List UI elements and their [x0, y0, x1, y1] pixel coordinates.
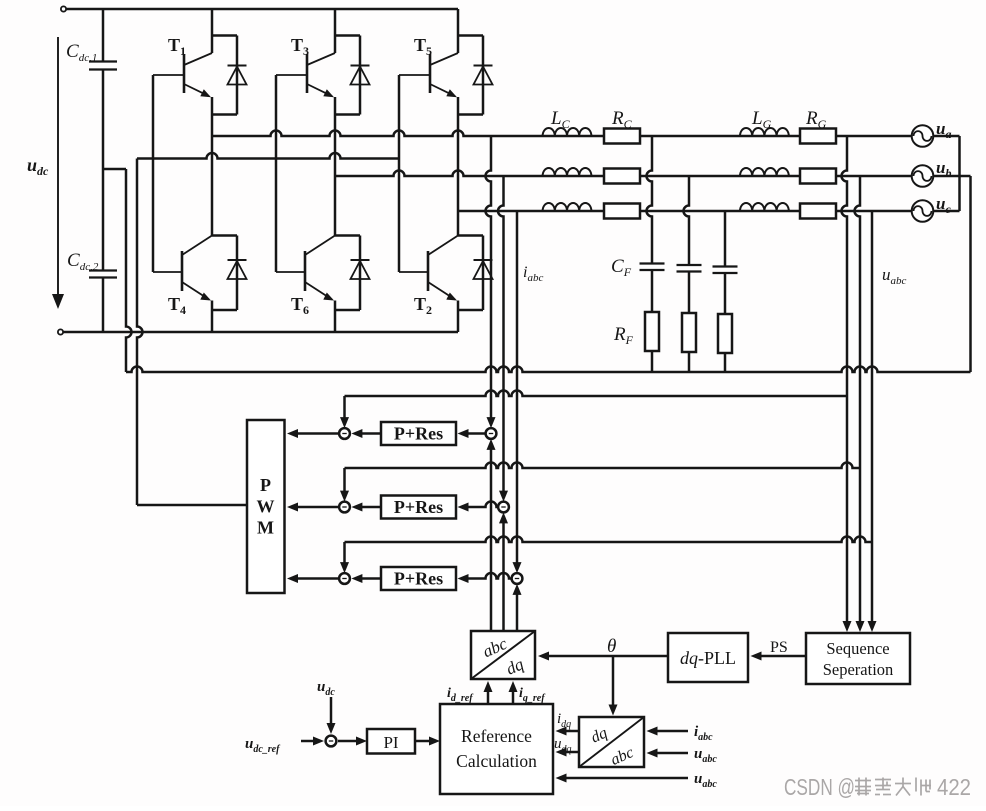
resistor R_F phase b	[682, 313, 696, 352]
arrow i_a into node	[487, 417, 496, 428]
wire neutral bus	[126, 367, 971, 372]
wire phase b	[335, 171, 913, 177]
block PWM	[247, 420, 285, 593]
label PI	[383, 733, 398, 752]
inductor L_C phase a	[543, 128, 592, 136]
watermark CSDN	[784, 774, 971, 800]
wire source a to star	[933, 136, 960, 211]
wire C_F branch b	[684, 176, 690, 265]
arrow P+Res out a	[351, 429, 381, 438]
label i_abc input	[694, 724, 713, 743]
wire PI to RefCalc	[415, 737, 440, 746]
label R_F	[613, 324, 634, 347]
wire node to PI	[338, 737, 367, 746]
label i_d_ref	[447, 686, 474, 704]
svg-text:T6: T6	[291, 294, 309, 317]
arrow u_a into sequence block	[843, 621, 852, 632]
arrow P+Res out c	[351, 574, 381, 583]
arrow ref c into node	[513, 584, 522, 595]
svg-text:T3: T3	[291, 35, 309, 58]
label T5	[414, 35, 432, 58]
wire node to PWM row c	[287, 574, 339, 583]
svg-text:CF: CF	[611, 256, 632, 279]
svg-text:Cdc,2: Cdc,2	[67, 250, 99, 273]
source u_b	[912, 165, 934, 187]
label PWM	[257, 475, 275, 538]
source u_a	[912, 125, 934, 147]
wire bottom DC rail	[63, 331, 458, 334]
block Reference Calculation	[440, 704, 553, 794]
svg-text:udc_ref: udc_ref	[245, 736, 281, 755]
svg-text:CSDN @: CSDN @	[784, 774, 855, 800]
arrow i_b into node	[499, 491, 508, 502]
label u_dq	[554, 736, 572, 755]
wire leg mid a	[211, 115, 214, 236]
wire DC cap rail middle	[102, 70, 105, 271]
wire phase a	[212, 131, 913, 137]
wire R_F to neutral b	[688, 352, 691, 372]
label L_C	[550, 108, 571, 131]
wire phase c	[458, 210, 913, 213]
wire u_a sense	[842, 136, 848, 396]
resistor R_C phase b	[604, 169, 640, 184]
block abc/dq	[471, 631, 535, 679]
svg-text:T5: T5	[414, 35, 432, 58]
wire source b to neutral	[933, 176, 971, 372]
label R_C	[611, 108, 633, 131]
svg-text:id_ref: id_ref	[447, 686, 474, 704]
diode D1 (antiparallel, top)	[212, 36, 247, 115]
inductor L_C phase c	[543, 203, 592, 211]
wire gate leg c	[398, 75, 401, 272]
diode D2 (antiparallel, bottom)	[458, 236, 493, 311]
wire i_abc into dq/abc	[647, 727, 689, 736]
inductor L_G phase a	[740, 128, 789, 136]
label u_abc	[882, 265, 907, 287]
wire feed-forward b	[345, 463, 861, 469]
resistor R_C phase c	[604, 204, 640, 219]
svg-text:T2: T2	[414, 294, 432, 317]
wire i_a sense	[486, 136, 492, 420]
label C_dc,2	[67, 250, 99, 273]
label C_F	[611, 256, 632, 279]
transistor T5	[399, 9, 458, 115]
label P+Res c	[394, 569, 443, 589]
label dq in abc/dq	[503, 654, 527, 678]
wire ref b riser	[502, 521, 505, 631]
arrow ref b into node	[499, 512, 508, 523]
arrow feed-forward b into node	[340, 468, 349, 502]
wire u_abc direct into RefCalc	[556, 774, 689, 783]
svg-text:P+Res: P+Res	[394, 424, 443, 444]
node summing right c	[512, 573, 523, 584]
transistor T3	[276, 9, 335, 115]
svg-text:θ: θ	[607, 636, 616, 657]
wire R_F to neutral c	[724, 353, 727, 372]
wire DC cap rail lower	[102, 278, 105, 333]
node summing right a	[486, 428, 497, 439]
wire u_c to sequence block	[871, 542, 874, 625]
diode D6 (antiparallel, bottom)	[335, 236, 370, 311]
capacitor C_F phase b	[677, 265, 702, 272]
arrow u_b into sequence block	[856, 621, 865, 632]
resistor R_C phase a	[604, 129, 640, 144]
inductor L_G phase b	[740, 168, 789, 176]
wire i_b sense	[498, 176, 504, 493]
resistor R_G phase c	[800, 204, 836, 219]
terminal top-left	[61, 6, 66, 11]
wire top DC rail	[66, 8, 458, 11]
label dq in dq/abc	[588, 724, 610, 746]
label i_dq	[557, 711, 571, 730]
wire DC midpoint down	[126, 169, 132, 372]
diode D3 (antiparallel, top)	[335, 36, 370, 115]
resistor R_F phase c	[718, 314, 732, 353]
label T6	[291, 294, 309, 317]
svg-text:LG: LG	[751, 108, 772, 131]
label u_b	[936, 158, 951, 180]
wire C_F branch c	[724, 211, 727, 267]
wire u_dc down	[327, 697, 336, 734]
svg-text:422: 422	[937, 774, 971, 800]
wire gate bus to PWM	[137, 153, 399, 159]
arrow P+Res out b	[351, 503, 381, 512]
svg-text:Reference: Reference	[461, 726, 532, 746]
resistor R_G phase b	[800, 169, 836, 184]
wire u_dq out	[556, 748, 580, 757]
block PI	[367, 729, 415, 754]
wire feed-forward c	[345, 537, 873, 543]
label T4	[168, 294, 186, 317]
label u_dc small	[317, 679, 335, 698]
label C_dc,1	[66, 41, 97, 64]
wire node to PWM row b	[287, 503, 339, 512]
wire i_d_ref	[484, 681, 493, 704]
svg-text:Seperation: Seperation	[823, 660, 894, 679]
node summing right b	[498, 502, 509, 513]
label T3	[291, 35, 309, 58]
svg-text:PI: PI	[383, 733, 398, 752]
wire PWM gate feed	[137, 504, 247, 507]
wire leg mid c	[457, 115, 460, 236]
block P+Res c	[381, 567, 456, 590]
svg-text:Calculation: Calculation	[456, 751, 537, 771]
diode D5 (antiparallel, top)	[458, 36, 493, 115]
arrow u_dc annotation	[52, 37, 64, 309]
wire C_F branch a	[647, 136, 653, 264]
svg-text:udc: udc	[27, 155, 49, 178]
wire C_F to R_F c	[724, 273, 727, 314]
wire u_b to sequence block	[859, 468, 862, 625]
wire feed-forward a	[345, 391, 848, 397]
svg-text:RG: RG	[805, 108, 827, 131]
svg-text:M: M	[257, 518, 274, 538]
svg-text:uc: uc	[936, 194, 951, 216]
resistor R_G phase a	[800, 129, 836, 144]
label u_dc	[27, 155, 49, 178]
wire node to P+Res b	[458, 502, 498, 512]
arrow i_c into node	[513, 562, 522, 573]
label Sequence Seperation	[823, 639, 894, 679]
wire PWM gate drop	[137, 159, 143, 506]
block Sequence Seperation	[806, 633, 910, 684]
capacitor C_dc,1	[89, 62, 117, 70]
transistor T6	[276, 236, 335, 333]
inductor L_C phase b	[543, 168, 592, 176]
arrow feed-forward c into node	[340, 542, 349, 573]
wire ref a riser	[490, 447, 493, 631]
wire C_F to R_F a	[651, 270, 654, 312]
svg-text:T1: T1	[168, 35, 186, 58]
label dq-PLL	[680, 648, 736, 668]
arrow ref a into node	[487, 439, 496, 450]
wire PS	[751, 652, 807, 661]
svg-text:W: W	[257, 497, 275, 517]
block P+Res b	[381, 496, 456, 519]
wire DC cap rail upper	[102, 9, 105, 62]
terminal bottom-left	[58, 329, 63, 334]
wire node to P+Res c	[458, 573, 512, 583]
label T2	[414, 294, 432, 317]
svg-text:uabc: uabc	[882, 265, 907, 287]
svg-text:P+Res: P+Res	[394, 569, 443, 589]
label u_dc_ref	[245, 736, 281, 755]
resistor R_F phase a	[645, 312, 659, 351]
label R_G	[805, 108, 827, 131]
label theta	[607, 636, 616, 657]
svg-text:ua: ua	[936, 119, 951, 141]
wire i_dq out	[556, 727, 580, 736]
label Reference Calculation	[456, 726, 537, 771]
wire u_dc_ref in	[301, 737, 324, 746]
label abc in abc/dq	[480, 634, 511, 662]
svg-text:dq-PLL: dq-PLL	[680, 648, 736, 668]
capacitor C_F phase a	[640, 264, 665, 271]
label P+Res b	[394, 497, 443, 517]
label u_c	[936, 194, 951, 216]
label i_q_ref	[519, 686, 546, 704]
svg-text:iabc: iabc	[523, 264, 543, 284]
transistor T4	[153, 236, 212, 333]
label T1	[168, 35, 186, 58]
svg-text:PS: PS	[770, 639, 788, 656]
wire source c to star	[933, 210, 960, 213]
transistor T2	[399, 236, 458, 333]
wire node to PWM row a	[287, 429, 339, 438]
wire DC midpoint tap	[103, 168, 126, 171]
source u_c	[912, 200, 934, 222]
arrow feed-forward a into node	[340, 396, 349, 428]
wire node to P+Res a	[458, 429, 486, 438]
svg-text:RC: RC	[611, 108, 633, 131]
svg-text:LC: LC	[550, 108, 571, 131]
block dq/abc	[579, 717, 644, 767]
svg-text:uabc: uabc	[694, 771, 717, 790]
svg-text:RF: RF	[613, 324, 634, 347]
capacitor C_F phase c	[713, 267, 738, 274]
label L_G	[751, 108, 772, 131]
svg-text:udc: udc	[317, 679, 335, 698]
label u_abc direct	[694, 771, 717, 790]
wire gate leg b	[275, 75, 278, 272]
wire theta	[538, 652, 668, 661]
svg-text:P: P	[260, 475, 271, 495]
label i_abc	[523, 264, 543, 284]
node summing left b	[339, 502, 350, 513]
arrow u_c into sequence block	[868, 621, 877, 632]
wire C_F to R_F b	[688, 272, 691, 314]
svg-text:idq: idq	[557, 711, 571, 730]
svg-text:uabc: uabc	[694, 746, 717, 765]
node summing left c	[339, 573, 350, 584]
wire u_b sense	[855, 176, 860, 468]
label u_a	[936, 119, 951, 141]
diode D4 (antiparallel, bottom)	[212, 236, 247, 311]
block P+Res a	[381, 422, 456, 445]
wire gate leg a	[152, 75, 155, 272]
svg-text:P+Res: P+Res	[394, 497, 443, 517]
node summing left a	[339, 428, 350, 439]
wire u_a to sequence block	[846, 396, 849, 625]
label abc in dq/abc	[608, 744, 636, 769]
wire u_abc into dq/abc	[647, 749, 689, 758]
wire i_q_ref	[509, 681, 518, 704]
svg-text:iabc: iabc	[694, 724, 713, 743]
wire ref c riser	[516, 592, 519, 631]
label P+Res a	[394, 424, 443, 444]
wire u_c sense	[871, 211, 874, 542]
svg-text:Cdc,1: Cdc,1	[66, 41, 97, 64]
capacitor C_dc,2	[89, 271, 117, 278]
label PS	[770, 639, 788, 656]
wire theta down to dq/abc	[609, 656, 618, 716]
node summing dc	[326, 736, 337, 747]
block dq-PLL	[668, 633, 748, 682]
wire leg mid b	[334, 115, 337, 236]
svg-text:iq_ref: iq_ref	[519, 686, 546, 704]
svg-text:Sequence: Sequence	[826, 639, 889, 658]
wire R_F to neutral a	[651, 351, 654, 372]
wire i_c sense	[516, 211, 519, 565]
inductor L_G phase c	[740, 203, 789, 211]
svg-text:T4: T4	[168, 294, 186, 317]
label u_abc input	[694, 746, 717, 765]
transistor T1	[153, 9, 212, 115]
